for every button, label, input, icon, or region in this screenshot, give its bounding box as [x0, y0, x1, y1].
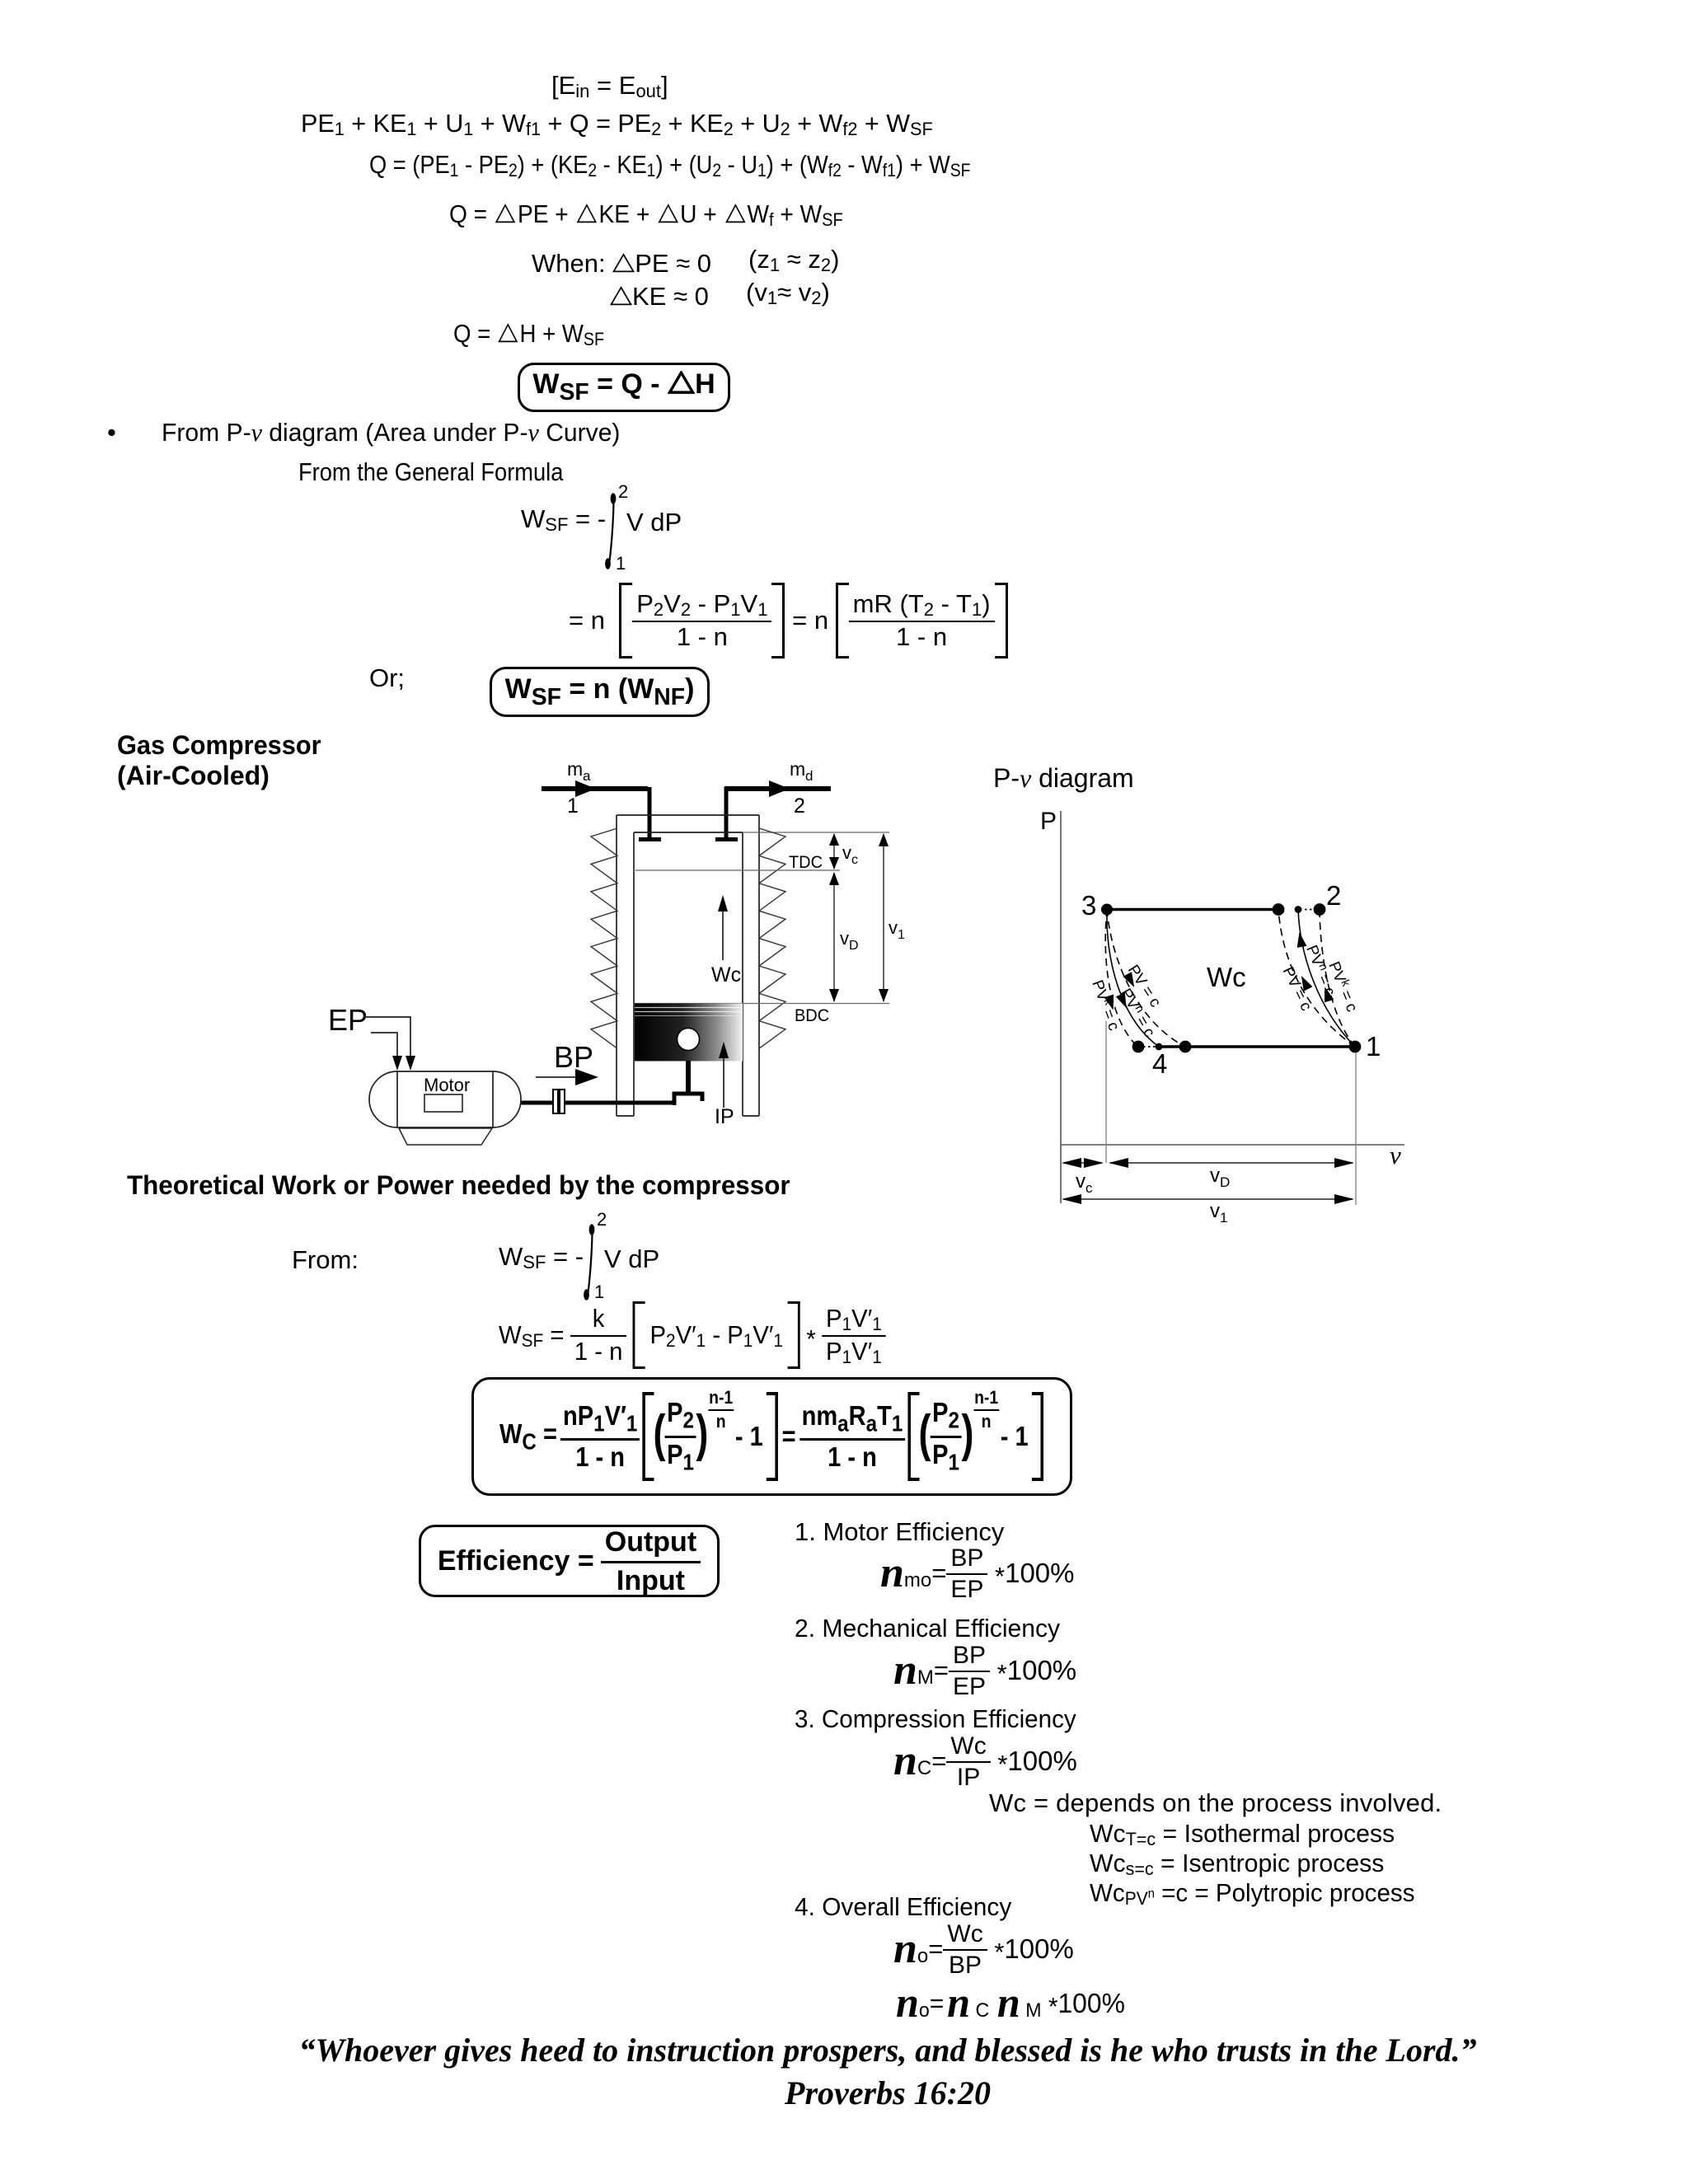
- mechanical efficiency formula: [893, 1647, 1076, 1694]
- formula line Q deltas: [449, 201, 843, 228]
- WSF integral formula: [521, 506, 606, 533]
- heading theoretical work: [127, 1172, 790, 1200]
- piston rod: [686, 1061, 691, 1093]
- 1. Motor Efficiency: [795, 1519, 1004, 1546]
- compression efficiency formula: [893, 1737, 1077, 1785]
- footer reference: [785, 2076, 991, 2111]
- boxed equation WSF = n (WNF): [490, 667, 710, 717]
- compression curve PV=c right dashed: [1278, 909, 1355, 1047]
- svg-text:1: 1: [898, 928, 905, 942]
- svg-text:2: 2: [1326, 880, 1341, 911]
- arrowhead on left PVk=c: [1104, 995, 1118, 1012]
- label vc: [1076, 1170, 1093, 1196]
- crank bracket: [674, 1094, 702, 1105]
- overall efficiency formula: [893, 1925, 1074, 1973]
- arrowhead on left PV=c: [1123, 972, 1138, 990]
- ref line below point 3: [1105, 1021, 1107, 1163]
- svg-text:IP: IP: [715, 1105, 734, 1128]
- svg-text:BP: BP: [554, 1040, 593, 1074]
- svg-text:v: v: [1210, 1200, 1220, 1222]
- svg-text:v: v: [889, 917, 898, 938]
- expansion curve PV=c left dashed: [1107, 909, 1185, 1047]
- v1 approx v2: [746, 279, 830, 307]
- overall = nc nm: [896, 1980, 1125, 2027]
- bullet From P-v diagram: [107, 419, 116, 447]
- label v_D: [840, 928, 859, 953]
- IP arrow: [719, 1042, 729, 1108]
- svg-text:Wc: Wc: [711, 963, 741, 987]
- From the General Formula: [298, 459, 563, 486]
- integral sign: [603, 488, 624, 572]
- boxed equation WSF = Q - dH: [518, 363, 730, 412]
- Wc T=c: [1090, 1821, 1395, 1848]
- svg-text:3: 3: [1081, 890, 1096, 921]
- svg-text:Motor: Motor: [424, 1075, 470, 1095]
- dotted segment near 2: [1300, 909, 1318, 911]
- expansion curve PVn=c left solid: [1107, 909, 1159, 1047]
- z1 approx z2: [748, 246, 839, 274]
- v_D dimension: [829, 872, 839, 1002]
- expansion curve PVk=c left dashed: [1105, 909, 1137, 1047]
- svg-text:1: 1: [1220, 1210, 1227, 1226]
- svg-text:2: 2: [794, 794, 805, 818]
- EP arrow 1: [363, 1017, 415, 1071]
- svg-text:Wc: Wc: [1207, 962, 1246, 992]
- label v_1: [889, 917, 905, 942]
- right cooling fins: [759, 828, 785, 1048]
- Or;: [369, 665, 405, 692]
- motor nameplate: [424, 1094, 462, 1112]
- svg-text:v: v: [1076, 1170, 1085, 1193]
- v axis: [1061, 1144, 1404, 1146]
- discharge pipe: [715, 787, 738, 840]
- svg-text:v: v: [1210, 1165, 1220, 1187]
- dimension vc: [1062, 1158, 1104, 1168]
- title P-v diagram: [993, 765, 1134, 793]
- svg-text:P: P: [1040, 808, 1057, 835]
- Wc PVn=c: [1090, 1880, 1414, 1907]
- left cooling fins: [591, 828, 617, 1048]
- svg-text:TDC: TDC: [789, 853, 823, 873]
- svg-text:m: m: [790, 758, 805, 780]
- svg-text:c: c: [851, 853, 858, 867]
- top reference line: [743, 832, 889, 833]
- 3. Compression Efficiency: [795, 1706, 1076, 1733]
- TDC line: [635, 869, 840, 871]
- dotted segment near 4: [1138, 1046, 1159, 1047]
- dimension vD: [1109, 1158, 1354, 1168]
- drive shaft: [518, 1101, 676, 1105]
- svg-text:1: 1: [567, 794, 579, 818]
- P axis: [1060, 811, 1062, 1203]
- arrowhead on right PVk=c: [1320, 986, 1334, 1003]
- formula line Ein=Eout: [551, 73, 668, 100]
- state dots bottom: [1132, 1041, 1145, 1053]
- motor body: [369, 1071, 521, 1127]
- = n [P2V2-P1V1 / 1-n] = n [mR(T2-T1) / 1-n]: [569, 582, 1008, 659]
- BDC line: [635, 1003, 889, 1005]
- BP arrow: [536, 1069, 598, 1085]
- EP arrow 2: [371, 1033, 402, 1071]
- svg-text:d: d: [805, 768, 813, 784]
- label vD: [1210, 1165, 1230, 1190]
- formula Q = dH + WSF: [453, 321, 604, 348]
- compression curve PVn=c right solid: [1298, 909, 1355, 1047]
- piston: [635, 1004, 743, 1062]
- WSF = k/(1-n)[...] formula: [499, 1302, 886, 1368]
- svg-text:v: v: [1390, 1141, 1401, 1169]
- motor base: [399, 1128, 492, 1145]
- motor efficiency formula: [880, 1549, 1075, 1597]
- ref line below point 1: [1355, 1048, 1357, 1205]
- isobar 4 to 1: [1159, 1045, 1355, 1048]
- v_c dimension: [829, 833, 839, 869]
- svg-text:PVk = c: PVk = c: [1088, 977, 1124, 1033]
- formula line energy balance: [301, 110, 933, 138]
- cylinder jacket: [617, 815, 759, 1116]
- svg-text:m: m: [567, 758, 583, 780]
- label v1: [1210, 1200, 1227, 1226]
- svg-text:1: 1: [1366, 1031, 1381, 1062]
- Wc depends note: [989, 1790, 1442, 1817]
- 2. Mechanical Efficiency: [795, 1615, 1060, 1643]
- svg-text:v: v: [842, 842, 851, 863]
- svg-text:4: 4: [1152, 1048, 1167, 1079]
- intake pipe: [639, 787, 661, 840]
- state dots top: [1101, 904, 1113, 916]
- big boxed Wc equation: [471, 1377, 1072, 1496]
- Wc arrow: [718, 895, 728, 960]
- dKE approx 0: [610, 284, 709, 311]
- 4. Overall Efficiency: [795, 1894, 1011, 1921]
- label v_c: [842, 842, 858, 867]
- svg-text:EP: EP: [328, 1003, 368, 1037]
- svg-text:D: D: [1220, 1174, 1230, 1190]
- arrowhead on right PV=c: [1297, 973, 1313, 991]
- dimension v1: [1062, 1194, 1354, 1204]
- formula line Q expanded: [369, 152, 971, 179]
- Wc s=c: [1090, 1850, 1384, 1877]
- From:: [292, 1247, 359, 1274]
- Efficiency box: [419, 1525, 720, 1597]
- intake arrow line: [542, 780, 648, 797]
- shaft coupling: [553, 1090, 565, 1113]
- v_1 dimension: [879, 833, 889, 1002]
- svg-text:v: v: [840, 928, 849, 949]
- isobar 3 to 2: [1107, 908, 1278, 912]
- svg-text:D: D: [849, 939, 859, 953]
- wrist pin: [678, 1029, 700, 1051]
- when dPE approx 0: [532, 251, 711, 278]
- discharge arrow line: [724, 780, 831, 797]
- footer quote: [298, 2033, 1476, 2068]
- compression curve PVk=c right dashed: [1320, 911, 1355, 1047]
- svg-text:c: c: [1085, 1180, 1093, 1196]
- svg-text:a: a: [583, 768, 591, 784]
- label m_d: [790, 758, 813, 784]
- cylinder bore walls: [634, 832, 743, 1116]
- WSF integral 2: [499, 1244, 584, 1271]
- arrowhead on right PVn=c: [1295, 931, 1307, 948]
- heading Gas Compressor: [117, 732, 321, 760]
- label m_a: [567, 758, 591, 784]
- svg-text:BDC: BDC: [795, 1006, 829, 1026]
- arrowhead on left PVn=c: [1116, 992, 1131, 1010]
